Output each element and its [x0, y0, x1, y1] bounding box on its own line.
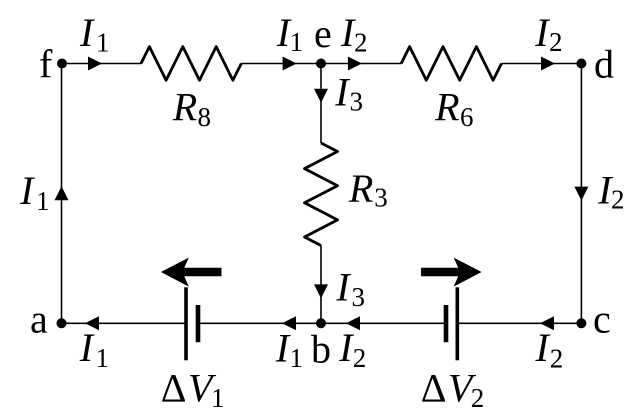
wire e to R6 [321, 63, 401, 65]
svg-text:2: 2 [354, 28, 368, 58]
node b [316, 318, 326, 328]
svg-text:c: c [593, 296, 611, 341]
svg-text:d: d [594, 41, 614, 86]
svg-text:1: 1 [290, 27, 304, 57]
node f [57, 59, 67, 69]
battery V1 long plate [184, 287, 188, 360]
svg-text:I: I [338, 325, 354, 370]
svg-text:R: R [348, 166, 373, 211]
svg-text:1: 1 [96, 27, 110, 57]
svg-text:b: b [311, 326, 331, 371]
current arrow I1 on wire f-e near e [283, 57, 297, 71]
current label I3 above b [335, 265, 365, 312]
svg-text:Δ: Δ [161, 365, 187, 410]
current arrow I2 on wire c-b near b (left) [346, 316, 360, 330]
current arrow I1 on left wire (up) [55, 186, 69, 200]
svg-text:1: 1 [96, 343, 110, 373]
svg-text:I: I [275, 326, 291, 371]
current arrow I1 on wire b-a near b (left) [282, 316, 296, 330]
wire right d to c [580, 64, 582, 324]
svg-text:I: I [534, 10, 550, 55]
current label I2 right wire [597, 167, 624, 214]
wire f to R8 [62, 63, 141, 65]
svg-text:I: I [79, 325, 95, 370]
current arrow I2 on wire e-d near e [348, 57, 362, 71]
svg-text:8: 8 [198, 102, 212, 132]
node a [57, 318, 67, 328]
emf direction arrow above V1 (thick, left) [161, 258, 222, 287]
svg-text:2: 2 [550, 344, 564, 374]
svg-text:3: 3 [352, 282, 366, 312]
current arrow I2 on right wire (down) [574, 187, 588, 201]
wire b to battery V2 [321, 322, 446, 324]
svg-text:1: 1 [290, 343, 304, 373]
current label I2 bottom-right [535, 325, 564, 374]
node c [576, 318, 586, 328]
resistor label R3 [348, 166, 388, 213]
svg-text:f: f [39, 42, 53, 87]
wire battery V2 to c [457, 322, 581, 324]
resistor label R6 [434, 85, 473, 132]
svg-text:I: I [334, 69, 350, 114]
wire R6 to d [502, 63, 582, 65]
svg-text:2: 2 [471, 383, 485, 413]
current label I2 right of b [338, 325, 366, 373]
svg-text:I: I [79, 10, 95, 55]
battery label deltaV2 [421, 365, 485, 413]
wire R8 to e [241, 63, 321, 65]
current arrow I2 on wire e-d near d [541, 57, 555, 71]
current label I1 bottom-left [79, 325, 109, 373]
current arrow I3 below e (down) [314, 89, 328, 103]
current label I1 left wire [19, 168, 49, 216]
node e [316, 59, 326, 69]
resistor R6 [401, 47, 501, 81]
current label I2 top-right [534, 10, 562, 57]
svg-text:Δ: Δ [421, 365, 447, 410]
svg-text:e: e [314, 11, 332, 56]
svg-text:3: 3 [350, 87, 364, 117]
resistor R8 [141, 47, 241, 81]
current label I1 left of b [275, 326, 303, 373]
current label I1 top-left [79, 10, 110, 58]
current arrow I1 on wire f-e near f [88, 57, 102, 71]
svg-text:a: a [30, 296, 48, 341]
svg-text:1: 1 [36, 186, 50, 216]
svg-text:2: 2 [549, 27, 563, 57]
svg-text:3: 3 [374, 183, 388, 213]
current arrow I3 above b (down) [314, 284, 328, 298]
current label I3 below e [334, 69, 363, 116]
svg-text:I: I [535, 325, 551, 370]
wire a to battery V1 [62, 322, 187, 324]
svg-text:2: 2 [353, 343, 367, 373]
wire left a to f [61, 64, 63, 324]
node d [576, 59, 586, 69]
resistor R3 [305, 143, 338, 246]
svg-text:1: 1 [211, 383, 225, 413]
svg-text:R: R [434, 85, 459, 130]
emf direction arrow above V2 (thick, right) [421, 258, 482, 287]
battery label deltaV1 [161, 365, 225, 413]
resistor label R8 [172, 85, 211, 132]
current arrow I2 on wire c-b near c (left) [540, 316, 554, 330]
wire e to R3 [320, 64, 322, 144]
current arrow I1 on wire b-a near a (left) [85, 316, 99, 330]
wire battery V1 to b [198, 322, 321, 324]
wire R3 to b [320, 246, 322, 324]
svg-text:R: R [172, 85, 197, 130]
svg-text:2: 2 [611, 185, 625, 215]
svg-text:I: I [335, 265, 351, 310]
current label I2 right of e [340, 10, 368, 58]
current label I1 left of e [276, 10, 303, 57]
svg-text:6: 6 [460, 102, 474, 132]
battery V1 short plate [196, 305, 201, 342]
battery V2 long plate [456, 287, 460, 360]
svg-text:I: I [19, 168, 35, 213]
battery V2 short plate [444, 305, 449, 342]
